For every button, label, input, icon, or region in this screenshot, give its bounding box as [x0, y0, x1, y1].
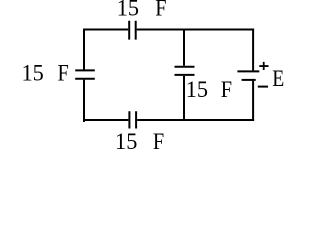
wire: top-left segment (left corner to top capacitor) — [84, 29, 128, 30]
capacitor C1 (top, vertical plates) — [129, 21, 136, 40]
svg-text:F: F — [155, 0, 166, 21]
label: E (battery EMF) — [272, 66, 284, 92]
battery polarity mark: - — [258, 86, 268, 88]
svg-text:15: 15 — [21, 61, 43, 87]
wire: middle lower segment — [183, 76, 185, 120]
svg-text:15: 15 — [115, 129, 137, 155]
wire: left upper segment — [83, 29, 85, 70]
wire: bottom-right segment — [137, 119, 253, 120]
battery E: short negative plate — [242, 79, 256, 81]
capacitor C4 (bottom, vertical plates) — [129, 111, 136, 128]
wire: right lower segment (from battery negative plate) — [252, 81, 254, 121]
wire: bottom-left segment — [83, 119, 128, 121]
label: 15 F (bottom capacitor value) — [115, 129, 164, 155]
label: 15 F (top capacitor value) — [117, 0, 167, 21]
wire: middle upper segment — [183, 30, 185, 66]
wire: right upper segment (to battery positive plate) — [252, 29, 254, 71]
capacitor C3 (middle, horizontal plates) — [175, 67, 195, 75]
label: 15 F (left capacitor value) — [21, 61, 68, 87]
svg-text:E: E — [272, 66, 284, 92]
battery polarity mark: + — [259, 62, 268, 70]
label: 15 F (middle capacitor value) — [186, 77, 232, 103]
wire: left lower segment — [84, 80, 85, 121]
svg-text:15: 15 — [186, 77, 208, 103]
svg-text:F: F — [58, 61, 69, 87]
capacitor C2 (left, horizontal plates) — [75, 70, 95, 78]
svg-text:F: F — [221, 77, 232, 103]
svg-text:F: F — [153, 129, 164, 155]
svg-text:15: 15 — [117, 0, 139, 21]
battery E: long positive plate — [237, 70, 259, 72]
wire: top-right segment (top capacitor to right corner) — [137, 29, 253, 32]
